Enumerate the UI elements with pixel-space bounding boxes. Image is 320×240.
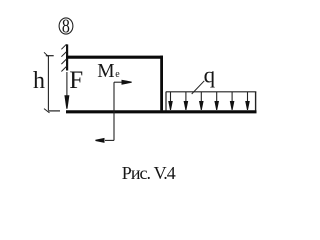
svg-text:M: M [97, 61, 114, 82]
svg-text:8: 8 [62, 15, 70, 37]
svg-text:F: F [69, 67, 83, 94]
svg-text:Рис. V.4: Рис. V.4 [122, 163, 176, 183]
svg-text:e: e [115, 69, 120, 80]
svg-text:h: h [33, 68, 45, 94]
svg-text:q: q [204, 63, 216, 88]
